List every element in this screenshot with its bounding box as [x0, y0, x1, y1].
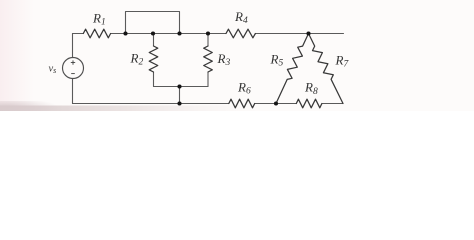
node: bridge right junction — [177, 31, 181, 35]
resistor R3 — [204, 46, 213, 72]
wire: R1 right to bridge left node — [111, 33, 126, 35]
page background — [0, 0, 474, 111]
node: delta bottom-left junction — [274, 101, 278, 105]
wire: R3 top stem — [207, 34, 209, 47]
resistor R8 — [296, 99, 322, 108]
resistor R5 — [276, 34, 309, 104]
node: bottom rail junction below connector — [177, 101, 181, 105]
svg-text:vs: vs — [49, 63, 57, 75]
wire: source - down to bottom rail — [72, 79, 74, 104]
node: R3 top junction — [206, 31, 210, 35]
wire: R4 to top rail right end — [255, 33, 343, 35]
voltage source vs circle — [63, 58, 84, 79]
resistor R4 — [226, 29, 255, 38]
wire: R2/R3 bottom connector — [154, 86, 209, 88]
resistor R7 — [309, 34, 344, 104]
bottom-left scan smudge — [0, 101, 58, 111]
wire: R6 to delta bottom-left node — [255, 103, 297, 105]
node: bridge left junction — [123, 31, 127, 35]
wire: top rail bridge-left to R4 — [126, 33, 227, 35]
vs plus sign — [71, 60, 75, 64]
node: connector middle junction — [177, 84, 181, 88]
vs minus sign — [71, 73, 75, 75]
wire: bottom rail from source to R6 — [73, 103, 229, 105]
wire: R8 right to delta bottom-right corner — [322, 103, 343, 105]
wire: R2 top stem — [153, 34, 155, 47]
resistor R1 — [83, 29, 110, 38]
bottom shadow band — [0, 106, 260, 112]
wire: R3 bottom stem — [207, 72, 209, 87]
wire: left branch from top rail down to source + — [72, 34, 74, 58]
node: R2 top junction — [151, 31, 155, 35]
left page tint — [0, 0, 34, 111]
wire: top rail left segment (source top to R1) — [73, 33, 84, 35]
wire: bridge rectangle (short across nodes) — [126, 12, 180, 34]
resistor R6 — [229, 99, 255, 108]
wire: connector center drop to bottom rail — [179, 87, 181, 104]
wire: R2 bottom stem — [153, 72, 155, 87]
resistor R2 — [149, 46, 158, 72]
node: delta apex junction — [306, 31, 310, 35]
